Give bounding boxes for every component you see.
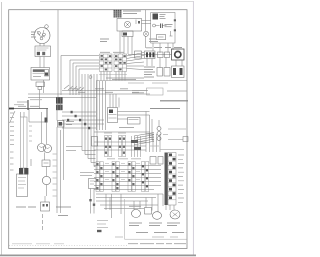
label text [14,100,42,105]
wire bus [28,97,96,99]
label text [123,11,141,14]
wire staircase [61,56,99,96]
fuse chain F1 [157,120,161,141]
label text [119,127,134,129]
label text [165,25,173,27]
thermostat cluster [153,14,166,20]
schematic bottom rule [96,80,187,82]
page right edge [192,1,194,255]
terminal block [36,82,45,90]
lamp L3 [42,176,50,184]
thermostat T3 [164,68,170,77]
compressor motor M1 [34,25,50,44]
harness stack B1 [96,162,103,192]
heading text [160,100,188,102]
wire bus rows [94,166,161,190]
wire mesh [62,111,104,130]
wire [134,194,163,212]
label text [80,173,94,176]
connector dot [45,118,48,123]
wire [42,112,47,144]
label text [18,105,39,107]
connector grid B [114,54,127,72]
splice dots [89,199,91,201]
switch mark [170,31,173,36]
harness stack B4 [142,162,149,192]
page top edge [40,0,193,2]
wire [57,110,64,213]
wire [17,101,29,103]
main harness connector [165,153,177,206]
wire drops to connector [110,94,119,108]
harness stack A3 [131,136,141,157]
mold heater box [122,31,133,37]
start device [145,208,152,215]
wire [46,167,48,177]
wire [57,10,59,97]
wire [96,194,163,209]
label text [136,232,184,234]
capacitor C1 [153,24,167,29]
wire fan diag [134,133,154,145]
aux connector boxes [150,157,156,165]
connector J3 [24,168,28,175]
connector top [108,108,118,123]
divider text [107,158,141,160]
compressor circle [170,210,180,219]
label text [163,129,186,140]
legend text block [144,67,155,77]
wire [46,185,48,196]
connector J2 [19,168,23,175]
thermostat box [92,137,98,147]
title box rule [125,238,188,240]
wire corners [146,112,154,141]
wire [147,58,182,68]
defrost timer [172,49,185,60]
border frame [9,10,187,249]
wire bus L1 [62,90,147,92]
wire ladder [66,74,97,171]
wire [120,31,132,54]
page left edge [1,2,3,255]
wire [145,10,147,48]
wire [40,44,44,47]
wire [112,194,121,218]
wire [128,54,172,56]
label text row [146,47,182,49]
door switch S2 [41,202,50,211]
wire junction [27,100,29,110]
note mark [97,230,102,232]
title text [115,236,178,238]
icemaker connector [114,10,122,18]
label column [10,113,14,170]
label text [16,206,36,208]
harness stack A1 [104,133,112,157]
label text [100,39,109,42]
label text vertical [42,214,44,230]
fan motor box [58,121,75,128]
thermostat T2 [157,68,163,77]
title box edge [124,199,126,239]
label text [106,78,144,80]
wire label column [53,154,57,196]
wire drops [153,43,173,53]
legend swatch box [147,88,164,95]
freezer lamp L1 [38,144,46,152]
title text left [12,243,64,245]
wire [146,134,160,152]
wire [142,21,151,24]
page bottom edge [0,254,196,256]
relay K1 [158,52,164,58]
legend scribble [64,85,84,91]
label text [30,159,32,166]
legend text [167,90,187,92]
label text [150,146,184,150]
run capacitor [31,68,50,81]
label ticks [29,126,32,141]
evap fan motor M3 [153,212,162,220]
subheading text [150,108,180,110]
wire fan [127,53,145,70]
dotted rule [9,245,128,247]
note text [128,82,168,84]
relay box [128,118,141,125]
connector P1 [145,51,156,59]
connector grid A [100,54,113,72]
wire [9,108,48,110]
inline connector [135,51,142,58]
junction circle [89,76,92,79]
control box U2 [151,13,175,44]
wire [40,80,44,109]
relay K2 [165,52,170,58]
lamp L0 [143,31,148,36]
label text [129,223,180,226]
light switch S1 [42,160,50,167]
wire [106,194,110,210]
overload relay [35,46,51,57]
note text [132,91,148,93]
harness stack A2 [118,133,126,157]
icemaker box [117,19,142,32]
wire [10,111,16,123]
wire [118,112,150,120]
wire bus [94,142,146,150]
wire [46,109,48,122]
heater box [172,66,185,78]
wire [99,74,127,76]
defrost thermostat [157,35,166,40]
fresh food lamp L2 [44,145,52,153]
label text [100,51,124,53]
wire L-bend [29,109,46,123]
harness stack B2 [112,162,119,192]
connector J5 [56,97,63,110]
caption text [128,243,186,245]
damper control box [17,174,28,197]
wire [40,57,44,68]
harness stack B3 [128,162,135,192]
run motor M2 [129,206,141,217]
wire bus N [28,93,150,95]
label text [56,207,71,216]
wire stem [44,196,46,202]
small box [183,137,188,142]
label text [31,32,36,37]
note block [97,221,108,228]
wire [94,131,150,133]
ribbon cable [21,112,28,168]
wire [166,205,174,210]
wire [44,153,46,161]
wire [91,189,95,214]
pin dots [174,19,176,21]
wire [97,81,106,130]
defrost heater comp [89,179,97,189]
pin labels [105,163,140,179]
wire [101,72,125,81]
label text [149,39,158,42]
label text [70,89,139,93]
pin labels [178,155,184,202]
